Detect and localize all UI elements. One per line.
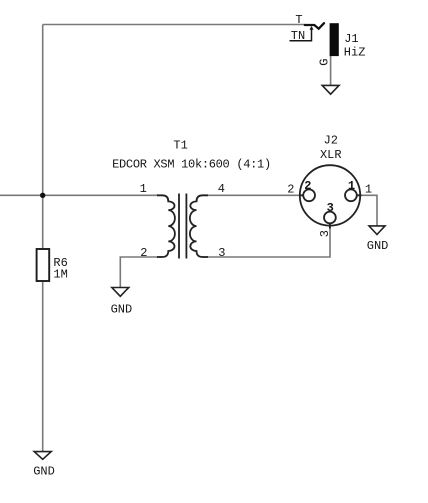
pin 2 xyxy=(299,194,303,196)
svg-text:EDCOR XSM 10k:600 (4:1): EDCOR XSM 10k:600 (4:1) xyxy=(112,157,271,171)
svg-text:GND: GND xyxy=(33,465,55,479)
ground GND (T1 pin2) xyxy=(111,288,133,317)
wire xyxy=(42,25,44,196)
pin 3 xyxy=(329,223,331,228)
wire xyxy=(42,281,44,452)
svg-text:3: 3 xyxy=(327,201,334,215)
svg-text:T1: T1 xyxy=(173,138,187,152)
svg-text:1: 1 xyxy=(348,179,355,193)
svg-text:J2: J2 xyxy=(324,133,338,147)
core xyxy=(179,194,186,259)
resistor R6 xyxy=(37,249,68,282)
wire xyxy=(42,195,44,249)
wire xyxy=(330,56,332,86)
svg-text:1: 1 xyxy=(140,182,147,196)
primary winding xyxy=(157,195,175,257)
svg-text:1M: 1M xyxy=(53,268,67,282)
wire xyxy=(202,194,303,196)
tip contact xyxy=(305,23,324,29)
ground GND (R6) xyxy=(33,452,55,479)
svg-text:4: 4 xyxy=(218,182,225,196)
secondary winding xyxy=(190,195,208,257)
ground (J1 sleeve) xyxy=(322,85,339,94)
svg-text:GND: GND xyxy=(367,239,389,253)
svg-text:XLR: XLR xyxy=(320,148,342,162)
svg-text:GND: GND xyxy=(111,303,133,317)
svg-text:T: T xyxy=(295,13,302,27)
switch TN contact xyxy=(290,29,312,41)
svg-text:G: G xyxy=(317,58,331,65)
connector J1 HiZ jack xyxy=(290,13,366,66)
ground GND (J2 pin1) xyxy=(367,226,389,253)
svg-text:2: 2 xyxy=(287,183,294,197)
connector J2 XLR xyxy=(287,133,372,237)
wire xyxy=(120,257,162,288)
svg-text:2: 2 xyxy=(140,246,147,260)
svg-text:1: 1 xyxy=(365,183,372,197)
sleeve body xyxy=(330,23,339,56)
wire xyxy=(357,195,377,226)
wire xyxy=(202,223,330,257)
svg-text:J1: J1 xyxy=(344,32,358,46)
wire xyxy=(43,24,305,26)
wire xyxy=(0,194,163,196)
svg-text:3: 3 xyxy=(318,230,332,237)
svg-text:HiZ: HiZ xyxy=(344,46,366,60)
transformer T1 xyxy=(112,138,271,260)
svg-text:2: 2 xyxy=(304,179,311,193)
pin 1 xyxy=(357,194,362,196)
svg-text:3: 3 xyxy=(218,246,225,260)
body circle xyxy=(300,165,360,225)
svg-text:TN: TN xyxy=(291,29,305,43)
node junction xyxy=(40,193,45,198)
